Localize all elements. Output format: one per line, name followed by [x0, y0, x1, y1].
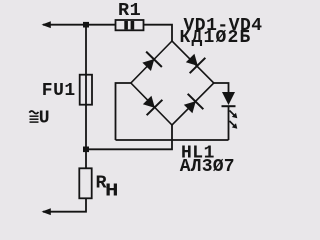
svg-text:R1: R1 [118, 0, 141, 21]
svg-text:U: U [39, 109, 50, 129]
svg-text:Н: Н [105, 181, 119, 202]
svg-text:АЛ3Ø7: АЛ3Ø7 [180, 157, 235, 177]
svg-text:КД1Ø2Б: КД1Ø2Б [180, 28, 252, 48]
svg-text:FU1: FU1 [42, 81, 76, 101]
